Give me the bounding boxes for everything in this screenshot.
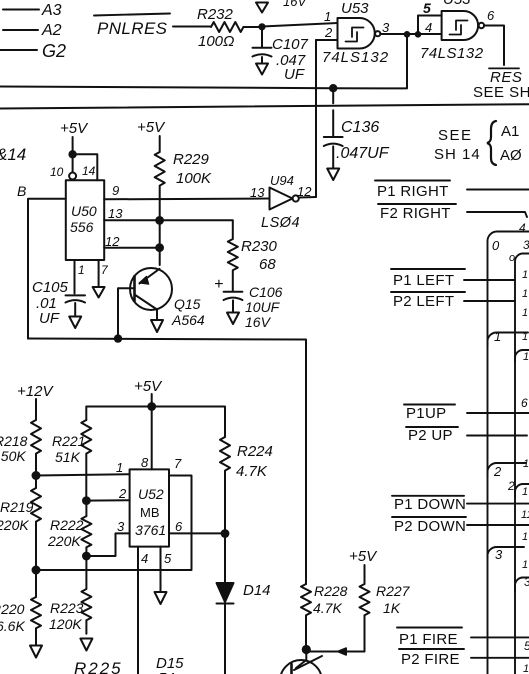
svg-text:220K: 220K	[47, 533, 81, 549]
svg-text:SEE SH: SEE SH	[473, 84, 529, 101]
svg-text:D14: D14	[243, 582, 271, 599]
svg-text:+5V: +5V	[134, 378, 163, 395]
svg-text:1: 1	[523, 663, 529, 674]
svg-text:UF: UF	[39, 310, 60, 327]
svg-text:1: 1	[522, 531, 528, 543]
svg-text:12: 12	[105, 234, 120, 249]
svg-text:6.6K: 6.6K	[0, 618, 25, 634]
svg-text:&14: &14	[0, 145, 26, 164]
svg-text:C136: C136	[341, 119, 379, 136]
svg-text:R218: R218	[0, 433, 28, 449]
svg-text:R221: R221	[52, 433, 85, 449]
svg-text:A2: A2	[41, 22, 62, 39]
svg-text:B: B	[17, 183, 26, 199]
svg-text:1: 1	[522, 559, 528, 571]
svg-text:6: 6	[487, 8, 495, 23]
svg-text:R223: R223	[50, 600, 84, 616]
svg-text:0: 0	[492, 238, 500, 253]
svg-text:4: 4	[425, 20, 432, 35]
svg-text:74LS132: 74LS132	[420, 45, 484, 62]
svg-text:MB: MB	[140, 505, 160, 520]
svg-text:R228: R228	[314, 583, 348, 599]
svg-text:R230: R230	[241, 238, 278, 255]
svg-text:68: 68	[259, 256, 276, 273]
svg-text:U53: U53	[443, 0, 471, 8]
svg-text:U52: U52	[138, 486, 164, 502]
svg-text:SEE: SEE	[438, 127, 473, 144]
svg-text:1: 1	[522, 288, 528, 300]
svg-text:556: 556	[70, 219, 94, 235]
svg-text:1K: 1K	[383, 600, 401, 616]
svg-text:P2 LEFT: P2 LEFT	[393, 293, 454, 310]
svg-text:6: 6	[521, 396, 528, 410]
svg-text:+: +	[214, 276, 223, 293]
svg-text:1: 1	[494, 329, 501, 344]
svg-text:3: 3	[382, 20, 390, 35]
svg-text:R220: R220	[0, 601, 25, 617]
svg-text:220K: 220K	[0, 517, 29, 533]
svg-text:14: 14	[82, 164, 96, 178]
svg-text:8: 8	[141, 455, 149, 470]
svg-text:A1: A1	[501, 123, 519, 140]
svg-text:16V: 16V	[245, 314, 272, 330]
svg-text:+5V: +5V	[60, 120, 89, 137]
svg-text:7: 7	[174, 456, 182, 471]
svg-text:P1UP: P1UP	[406, 405, 446, 422]
svg-text:1: 1	[78, 263, 85, 277]
svg-text:R219: R219	[0, 499, 34, 515]
svg-text:R229: R229	[173, 151, 210, 168]
svg-text:1: 1	[522, 486, 528, 498]
svg-text:10: 10	[50, 165, 64, 179]
svg-text:+12V: +12V	[17, 383, 54, 400]
svg-text:A564: A564	[171, 312, 205, 328]
svg-text:R232: R232	[197, 6, 234, 23]
svg-text:1: 1	[116, 460, 123, 475]
svg-text:1: 1	[522, 331, 528, 343]
svg-text:3: 3	[495, 547, 503, 562]
svg-text:U50: U50	[71, 203, 97, 219]
svg-text:+5V: +5V	[349, 548, 378, 565]
svg-text:3: 3	[117, 519, 125, 534]
svg-text:P1 RIGHT: P1 RIGHT	[377, 183, 449, 200]
svg-text:1: 1	[324, 9, 331, 24]
svg-text:R227: R227	[376, 583, 411, 599]
svg-text:51K: 51K	[55, 449, 81, 465]
svg-text:3: 3	[524, 575, 529, 589]
svg-text:P2 UP: P2 UP	[408, 427, 453, 444]
svg-text:2: 2	[493, 464, 502, 479]
svg-text:4.7K: 4.7K	[313, 600, 342, 616]
svg-text:11: 11	[521, 509, 529, 521]
svg-text:10UF: 10UF	[245, 299, 281, 315]
svg-text:4.7K: 4.7K	[236, 463, 268, 480]
svg-text:120K: 120K	[49, 616, 82, 632]
svg-text:R222: R222	[50, 517, 84, 533]
svg-text:R224: R224	[237, 443, 273, 460]
svg-text:o: o	[509, 252, 515, 264]
svg-text:PNLRES: PNLRES	[97, 19, 168, 38]
svg-text:13: 13	[250, 185, 265, 200]
svg-text:SH 14: SH 14	[434, 146, 481, 163]
svg-text:5: 5	[524, 639, 529, 653]
svg-text:2: 2	[118, 486, 127, 501]
svg-text:P2 FIRE: P2 FIRE	[401, 651, 460, 668]
svg-text:1: 1	[523, 351, 529, 363]
svg-text:U53: U53	[341, 0, 369, 17]
svg-text:P1 LEFT: P1 LEFT	[393, 272, 454, 289]
svg-text:74LS132: 74LS132	[322, 49, 389, 66]
svg-text:16V: 16V	[283, 0, 307, 9]
svg-text:C105: C105	[32, 279, 69, 296]
svg-text:1: 1	[523, 458, 529, 470]
svg-text:54: 54	[158, 670, 175, 674]
svg-text:9: 9	[112, 183, 119, 198]
svg-text:P1 DOWN: P1 DOWN	[394, 496, 466, 513]
svg-text:AØ: AØ	[500, 147, 522, 164]
svg-text:UF: UF	[284, 66, 305, 83]
svg-text:13: 13	[108, 206, 123, 221]
svg-text:F2 RIGHT: F2 RIGHT	[380, 205, 451, 222]
svg-text:5: 5	[164, 551, 172, 566]
svg-text:150K: 150K	[0, 448, 26, 464]
svg-text:1: 1	[522, 307, 528, 319]
svg-text:.047UF: .047UF	[336, 145, 390, 162]
svg-text:P1 FIRE: P1 FIRE	[399, 631, 458, 648]
svg-text:100K: 100K	[176, 170, 212, 187]
svg-text:4: 4	[519, 221, 526, 235]
svg-text:R225: R225	[74, 659, 123, 674]
svg-text:LSØ4: LSØ4	[261, 215, 300, 231]
svg-text:+5V: +5V	[137, 119, 166, 136]
svg-text:100Ω: 100Ω	[198, 33, 234, 50]
svg-text:G2: G2	[42, 41, 66, 61]
svg-text:P2 DOWN: P2 DOWN	[394, 518, 466, 535]
svg-text:3761: 3761	[135, 522, 166, 538]
svg-text:C106: C106	[249, 284, 283, 300]
svg-text:1: 1	[522, 269, 528, 281]
svg-text:2: 2	[507, 479, 515, 493]
svg-text:5: 5	[423, 0, 431, 16]
svg-text:C107: C107	[272, 36, 309, 53]
svg-text:A3: A3	[41, 2, 62, 19]
svg-text:U94: U94	[270, 173, 294, 188]
svg-text:3: 3	[523, 238, 529, 252]
svg-text:12: 12	[297, 184, 312, 199]
svg-text:6: 6	[175, 519, 183, 534]
svg-text:4: 4	[141, 551, 148, 566]
svg-text:Q15: Q15	[174, 296, 201, 312]
svg-text:2: 2	[324, 25, 333, 40]
svg-text:7: 7	[101, 263, 109, 277]
